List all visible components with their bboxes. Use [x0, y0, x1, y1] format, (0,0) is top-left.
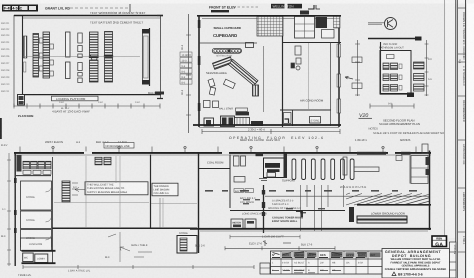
dark wall corner mid right [296, 211, 302, 217]
bathroom fixtures right room [291, 46, 301, 70]
title bottom number line [392, 272, 423, 276]
detail dimension bottom [370, 103, 414, 109]
dark wardrobe block [316, 17, 328, 28]
air cond room partition wall [280, 42, 331, 126]
ground level centre vertical line [119, 232, 121, 262]
dimension line under middle plan [202, 128, 340, 135]
bottom-left inner boxes [23, 253, 48, 263]
note box 1 [85, 182, 148, 195]
chair row [212, 43, 253, 58]
column grid tick row [20, 147, 416, 153]
revision bottom row marks [272, 271, 341, 273]
gutter between sheet edge and strip [446, 0, 456, 238]
left schedule text stack [1, 22, 10, 93]
top inner box [387, 55, 395, 59]
column grid bubbles [52, 146, 385, 149]
notes caption [369, 128, 445, 136]
scattered small marks bottom area [263, 240, 291, 246]
sheet number cells right of title block [450, 242, 457, 278]
table row T5 (ladder with dark waist) [104, 32, 113, 83]
counter upper bar [213, 57, 233, 70]
bottom fixtures row of middle plan [204, 101, 264, 127]
right sheet margin [467, 0, 474, 278]
mid horizontal wall right section [230, 210, 345, 212]
tiny label dashes along mid dimension row [205, 190, 417, 192]
left room stack room D [21, 238, 52, 251]
top-left corner dark room [17, 155, 22, 172]
column lines lower zone [301, 185, 344, 231]
note box 2 [152, 183, 178, 196]
lift shaft boxes [234, 156, 246, 182]
boxed note no building line [104, 143, 134, 149]
left room labels [26, 196, 35, 240]
store box with ladder bottom-middle [177, 232, 197, 253]
street label FRONT ST ELEV [209, 5, 259, 9]
top wall of upper-left plan [14, 11, 163, 18]
V20 mark [359, 113, 373, 119]
small box left of revision table [260, 263, 270, 274]
bottom-left cross wall [22, 250, 56, 252]
small dark mark above waffle [300, 11, 309, 15]
small tilted service box [223, 79, 235, 88]
boxed labels row mid plan [234, 189, 254, 193]
header tick mark [129, 4, 131, 12]
faint hall column lines [54, 156, 197, 228]
table row T3 (segmented small benches) [78, 33, 82, 83]
ramp diagonal hatch [346, 193, 430, 205]
middle vertical wall [198, 153, 200, 253]
car dimension line [230, 235, 300, 239]
strip cell dividers [458, 8, 466, 252]
drawing number box F-49-4-59C [2, 5, 38, 12]
title block border [382, 249, 450, 278]
bath fixture row 3 [383, 85, 402, 92]
right hatched bar 2 [414, 74, 425, 81]
dark vertical bar at ramp left [349, 207, 354, 222]
bottom wall left section [22, 262, 56, 264]
centre aisle line [23, 56, 140, 58]
dimension leader into note box [75, 188, 85, 192]
bottom wall of middle plan [193, 125, 341, 128]
RBN GA stamp box [432, 236, 447, 248]
dark loading platform band [357, 216, 407, 223]
small dark store box lower-left [18, 95, 25, 106]
left wall of middle plan [198, 15, 201, 127]
street label GRANT LVL RD [45, 7, 128, 11]
detail dimension left column [345, 40, 362, 96]
left room stack room A [21, 181, 52, 210]
bath fixture row 1 [383, 63, 402, 70]
revision table [271, 251, 383, 274]
table row T2 (plain tall benches) [66, 32, 71, 79]
bath fixture row 2 [383, 74, 402, 81]
detail plan top wall [368, 37, 422, 41]
kitchen fixture row (hatched squares) [23, 161, 51, 169]
ramp wall right [357, 204, 431, 206]
counter end vertical [253, 85, 259, 96]
small text marks lower middle [105, 244, 148, 259]
door swing arcs left rooms [46, 186, 52, 240]
bedroom outline with beds [295, 17, 315, 39]
bench row under fixtures [23, 170, 51, 174]
table row T4 (ladder with waist) [89, 32, 99, 82]
meter room cells bottom-left of warehouse [231, 219, 256, 229]
dimension text row above lower plan [45, 138, 411, 144]
dimension column between plans [181, 14, 191, 133]
spaces text rows [240, 197, 301, 210]
dimension row under upper-left plan [14, 101, 160, 114]
detail plan caption texts inside top [379, 43, 404, 50]
left wall of lower plan [14, 153, 16, 267]
outer right boundary of upper-left plan [157, 15, 163, 99]
mid horizontal wall left section [52, 227, 197, 229]
dimension row lower right [225, 246, 335, 250]
dark patch bar above top wall [211, 10, 229, 12]
store box in right lower room [310, 117, 321, 124]
room divider vertical [263, 46, 265, 112]
faint centre vertical line 2 [159, 198, 161, 228]
bottom dimension row left [23, 265, 254, 273]
top wall of middle plan [197, 16, 341, 19]
title strip borders [456, 0, 466, 278]
detail caption line 1 [379, 119, 420, 126]
detail plan inner room [380, 51, 411, 95]
stack of small level labels [180, 52, 192, 85]
sheet edge line [444, 0, 446, 240]
stair block [256, 152, 288, 181]
scattered row label dashes [243, 199, 325, 213]
detail plan bottom wall [380, 93, 414, 98]
right wall assembly of upper-left plan [142, 28, 150, 86]
two small angled pieces [208, 79, 216, 95]
left sheet edge dark bar [0, 118, 2, 139]
left wall of upper-left plan [23, 16, 27, 96]
bottom wall of lower plan [190, 229, 431, 231]
cupboard room [199, 26, 257, 43]
right hatched bar 3 [414, 84, 425, 91]
waffle grid stair area [257, 17, 283, 37]
revision header dark smudges [282, 252, 381, 258]
bottom wall of upper-left plan [22, 91, 161, 95]
left room stack room B [21, 211, 52, 229]
texts under bottom wall [195, 236, 313, 248]
header corner marks [308, 5, 320, 9]
wall from top at coal room [229, 155, 231, 209]
centre-left vertical wall [150, 155, 152, 229]
warehouse roof-light channels [292, 159, 354, 180]
left room stack room C [21, 230, 52, 248]
small bed box [322, 30, 335, 39]
central vertical wall of lower plan [262, 185, 265, 233]
small ladder box mid-left [62, 181, 78, 202]
strip small figures [458, 60, 461, 64]
title small lines [385, 258, 447, 271]
hatched pair boxes near top [95, 157, 111, 165]
right wall of middle plan [334, 15, 341, 127]
key / north symbol [368, 18, 397, 30]
partition wall mid-right [283, 36, 342, 127]
loading platform label box [52, 96, 99, 101]
right hatched bar 1 [414, 62, 425, 69]
leader marks lower middle [108, 234, 152, 257]
revision table row scribbles [272, 262, 363, 273]
wall under kitchen [16, 175, 51, 177]
right wall of lower plan [411, 144, 430, 230]
top sheet margin [0, 0, 474, 4]
left margin faint labels [1, 144, 8, 238]
mid horizontal line upper [265, 195, 430, 197]
counter diagonal bar [228, 59, 257, 85]
table row T1 (double ladder with side stools) [33, 32, 53, 78]
detail plan left wall [380, 42, 382, 94]
street name dark block WELLINGTON [271, 4, 302, 9]
dark dash left of balcony [155, 92, 164, 95]
top wall of lower plan [14, 151, 431, 155]
right rooms dark marks [396, 156, 430, 184]
detail dimension right column [425, 40, 433, 96]
dimension line left of plan [13, 15, 15, 107]
toilet in small right room [284, 113, 292, 124]
faint divider right section [308, 43, 310, 109]
cooling tower text blob [272, 217, 303, 223]
left rooms right wall [52, 157, 54, 264]
left dimension line lower plan [7, 153, 11, 266]
revision table header scribbles [272, 253, 376, 257]
horizontal slim bar right [354, 167, 379, 172]
revision header heavy scribble marks [272, 252, 366, 258]
dark text bars above right top wall [357, 152, 411, 155]
column slim rect right [343, 157, 347, 175]
